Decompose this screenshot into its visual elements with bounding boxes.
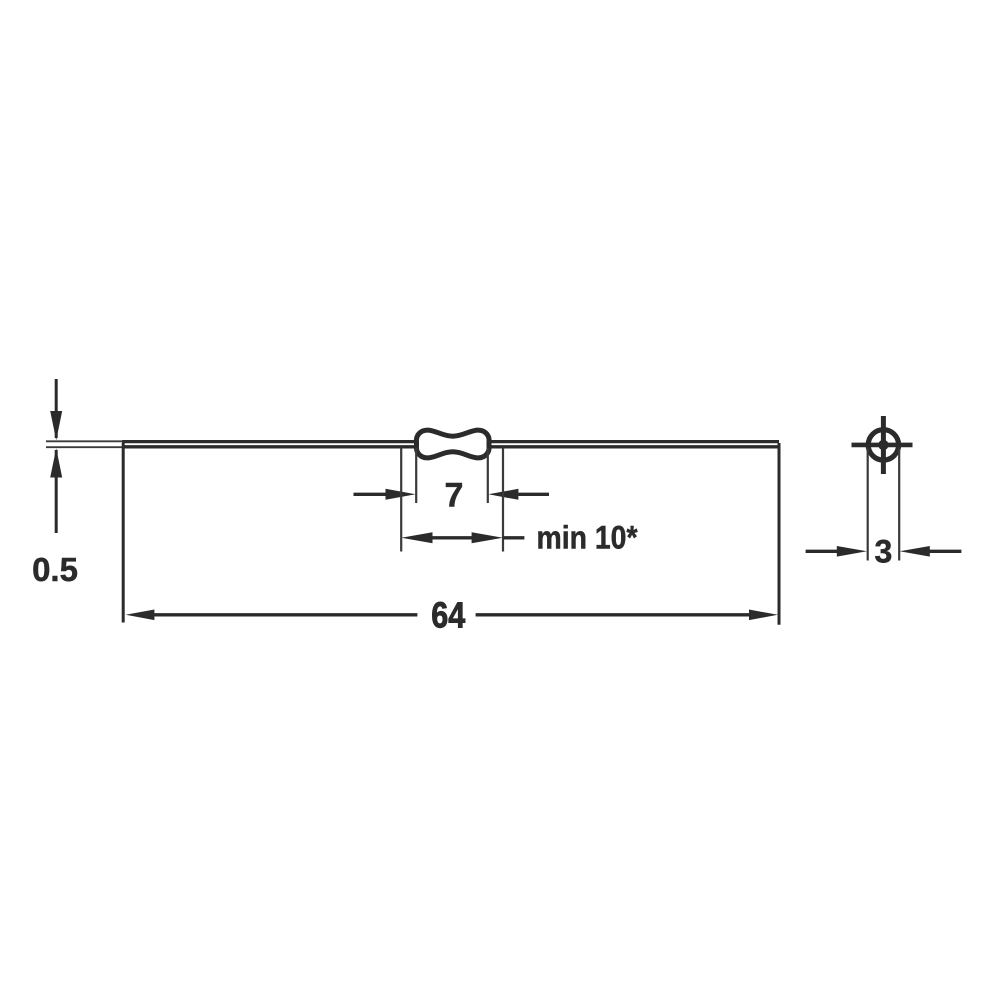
component body (bone shaped outline) (416, 430, 489, 458)
extension line left of body for dim 7 (415, 448, 417, 503)
svg-text:3: 3 (875, 534, 893, 570)
extension line left for dim 64 (122, 443, 125, 623)
dim 3 left shaft (806, 550, 840, 553)
extension line of wire top edge (left) (46, 440, 123, 442)
dimension 0.5 arrowhead pointing up (50, 448, 62, 477)
dimension 0.5 arrowhead pointing down (50, 411, 62, 440)
dim 3 right shaft (928, 550, 961, 553)
dim 64 right arrowhead pointing right (749, 610, 778, 621)
dim min10 shaft (430, 536, 474, 539)
extension line right for dim 64 (778, 443, 781, 625)
dim 3 right arrowhead pointing left (900, 546, 930, 557)
end view crosshair vertical (881, 416, 886, 474)
dim min10 tail to label (503, 536, 524, 539)
extension line left for dim min 10 (400, 448, 402, 552)
dim 64 left arrowhead pointing left (126, 610, 155, 621)
extension line right of body for dim 7 (487, 448, 489, 503)
wire lead top edge (122, 440, 779, 443)
dim 7 left arrow shaft (354, 493, 389, 496)
wire lead bottom edge (122, 445, 779, 448)
dim 3 left arrowhead pointing right (837, 546, 867, 557)
dimension 0.5 vertical line above wire (55, 379, 58, 438)
extension line right for dim min 10 (502, 448, 504, 552)
dim 64 left shaft (152, 613, 417, 616)
end view crosshair horizontal (852, 443, 913, 448)
extension line left for dim 3 (867, 448, 869, 561)
end view body circle (868, 430, 898, 460)
dimension 0.5 vertical line below wire (55, 450, 58, 533)
dim 7 left arrowhead pointing right (386, 489, 416, 500)
svg-text:min 10*: min 10* (537, 520, 638, 556)
dim 64 right shaft (476, 613, 750, 616)
dim 7 right arrow shaft (516, 493, 549, 496)
svg-text:0.5: 0.5 (32, 551, 78, 588)
extension line of wire bottom edge (left) (46, 446, 123, 448)
dim min10 arrowhead pointing left (401, 532, 432, 543)
dim 7 right arrowhead pointing left (488, 489, 518, 500)
svg-text:7: 7 (445, 477, 464, 515)
dim min10 arrowhead pointing right (472, 532, 503, 543)
extension line right for dim 3 (898, 448, 900, 561)
svg-text:64: 64 (431, 595, 466, 636)
end view center dot (wire cross-section) (878, 440, 888, 450)
